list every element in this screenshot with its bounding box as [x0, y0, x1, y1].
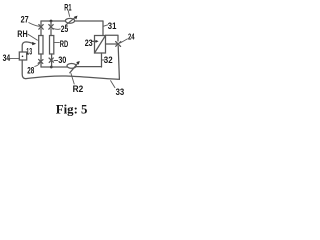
- label 32 dash: [102, 59, 105, 61]
- svg-text:25: 25: [61, 24, 69, 35]
- resistor R2 oval: [67, 64, 76, 69]
- label 30 dash: [54, 60, 58, 62]
- wire bottom border: [26, 76, 120, 79]
- wire rail1: [41, 66, 102, 68]
- node dot top: [50, 20, 53, 23]
- resistor R2 arrow: [70, 62, 79, 72]
- svg-text:23: 23: [85, 38, 93, 49]
- svg-text:30: 30: [58, 55, 66, 66]
- wire RH bottom lead: [40, 54, 42, 67]
- label 27 leader: [29, 23, 40, 27]
- contact 28 X: [38, 59, 43, 63]
- label 25 leader: [53, 27, 60, 30]
- resistor RD: [50, 36, 54, 55]
- resistor R1 arrowhead: [74, 16, 78, 20]
- wire top right vertical 31: [102, 21, 104, 36]
- svg-text:31: 31: [108, 21, 117, 32]
- wire right border down: [118, 46, 119, 79]
- contact 27 X: [39, 25, 43, 30]
- wire source top lead curving to arrow 13: [22, 42, 32, 52]
- svg-text:27: 27: [21, 15, 29, 26]
- svg-text:33: 33: [116, 87, 125, 98]
- label 24 leader: [120, 39, 127, 43]
- contact 24 X: [116, 42, 121, 47]
- source box dot: [22, 56, 24, 58]
- label R2 leader: [71, 74, 74, 85]
- svg-text:Fig: 5: Fig: 5: [56, 102, 88, 116]
- wire to RH: [40, 29, 42, 36]
- wire right drop: [50, 21, 52, 25]
- label 31 leader: [104, 25, 108, 26]
- wire to RD: [50, 29, 52, 36]
- wire top rail: [41, 20, 103, 22]
- resistor RH: [39, 36, 43, 55]
- wire source bottom lead with corner: [22, 60, 26, 79]
- node dot bottom: [50, 66, 53, 69]
- box 23: [95, 36, 106, 54]
- contact 25 X: [49, 25, 53, 30]
- resistor R2 arrowhead: [76, 61, 80, 65]
- resistor R1 arrow: [66, 17, 76, 25]
- svg-text:13: 13: [26, 47, 32, 58]
- contact 30 X: [49, 58, 54, 62]
- svg-text:28: 28: [27, 65, 34, 76]
- svg-text:24: 24: [128, 32, 135, 42]
- svg-text:R2: R2: [73, 84, 84, 95]
- box 23 diagonal: [95, 36, 106, 54]
- svg-text:32: 32: [104, 55, 113, 66]
- arrow 13 arrowhead: [32, 42, 36, 45]
- svg-text:RH: RH: [17, 29, 27, 40]
- wire left drop: [40, 21, 42, 25]
- label RD dash: [54, 42, 59, 44]
- label 28 leader: [35, 63, 40, 67]
- resistor R1 oval: [65, 18, 74, 23]
- label RH leader: [28, 34, 38, 40]
- wire box23 top to right vertical: [106, 35, 119, 41]
- wire box23 right to contact 24: [106, 43, 119, 45]
- wire 32 lead up to box 23: [101, 53, 103, 67]
- svg-text:R1: R1: [64, 2, 72, 13]
- svg-text:34: 34: [3, 53, 11, 64]
- label 23 pointer arrow: [92, 40, 96, 42]
- label 33 leader: [111, 81, 115, 88]
- svg-text:RD: RD: [60, 39, 68, 50]
- source box 34: [19, 52, 26, 60]
- label R1 leader: [68, 11, 69, 16]
- label 23 arrowhead: [96, 40, 99, 43]
- wire RD bottom lead: [51, 54, 53, 67]
- label 34 dash: [10, 57, 18, 59]
